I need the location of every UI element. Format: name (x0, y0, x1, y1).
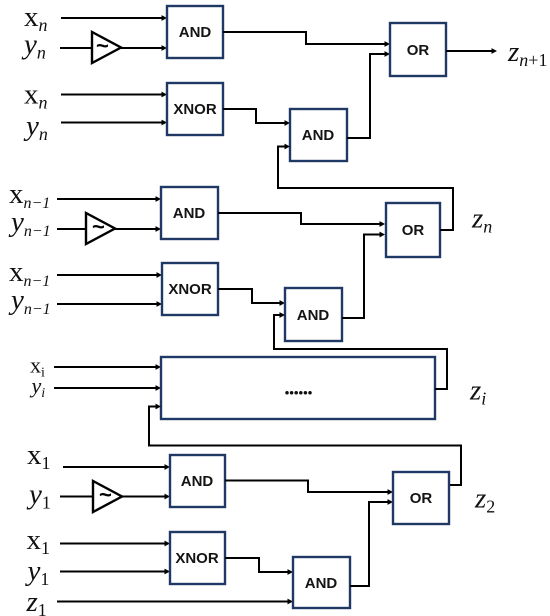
wire x_n to AND U1 (61, 15, 167, 21)
svg-text:AND: AND (179, 24, 212, 41)
wire U5 output to OR U8 (218, 213, 385, 227)
wire z_i feedback block to AND U7 (274, 312, 447, 389)
svg-text:y1: y1 (25, 555, 50, 589)
inverter B2 (~) (86, 213, 115, 244)
wire x_1 to XNOR U10 (60, 541, 170, 547)
wire y_n-1 to XNOR U6 (57, 301, 162, 307)
gate AND U3 (290, 109, 347, 161)
wire z_1 to AND U11 (57, 599, 293, 605)
svg-text:AND: AND (297, 307, 330, 324)
wire U9 output to OR U12 (225, 481, 393, 495)
gate XNOR U2 (167, 83, 223, 135)
svg-text:zn+1: zn+1 (507, 36, 547, 70)
svg-text:z1: z1 (26, 586, 47, 616)
gate AND U5 (161, 187, 218, 239)
wire x_n to XNOR U2 (61, 92, 167, 98)
svg-text:OR: OR (410, 490, 433, 507)
wire y_1 to inverter B3 (60, 496, 93, 498)
wire x_1 to AND U9 (63, 464, 170, 470)
wire inverter B1 to AND U1 (121, 45, 167, 51)
gate AND U1 (167, 6, 223, 58)
svg-text:XNOR: XNOR (168, 281, 212, 298)
svg-text:yn: yn (23, 110, 48, 144)
svg-text:AND: AND (173, 205, 206, 222)
wire U3 output to OR U4 (347, 51, 390, 138)
wire x_i to dots box (54, 364, 161, 370)
svg-text:AND: AND (302, 127, 335, 144)
wire y_n-1 to inverter B2 (57, 228, 86, 230)
svg-text:xn: xn (24, 79, 48, 113)
gate XNOR U6 (162, 263, 218, 315)
wire U10 output to AND U11 (225, 558, 293, 575)
svg-text:XNOR: XNOR (173, 101, 217, 118)
wire inverter B3 to AND U9 (122, 494, 170, 500)
inverter B3 (~) (93, 481, 122, 512)
wire U6 output to AND U7 (218, 289, 285, 306)
svg-text:x1: x1 (27, 524, 51, 558)
svg-text:~: ~ (96, 33, 109, 58)
wire inverter B2 to AND U5 (115, 226, 161, 232)
gate AND U9 (170, 455, 225, 507)
svg-text:AND: AND (305, 575, 338, 592)
wire x_n-1 to AND U5 (57, 196, 161, 202)
svg-text:x1: x1 (27, 439, 51, 473)
svg-text:XNOR: XNOR (175, 550, 219, 567)
gate OR U12 (393, 472, 449, 524)
wire U11 output to OR U12 (350, 499, 393, 586)
svg-text:AND: AND (181, 473, 214, 490)
wire U2 output to AND U3 (223, 109, 290, 126)
wire U1 output to OR U4 (223, 32, 390, 47)
wire z_n feedback U8 to AND U3 (278, 144, 453, 230)
gate OR U8 (386, 203, 440, 257)
svg-text:OR: OR (402, 222, 425, 239)
wire U7 output to OR U8 (342, 232, 385, 318)
inverter B1 (~) (92, 32, 121, 63)
svg-text:zn: zn (471, 203, 492, 237)
svg-text:y1: y1 (26, 479, 51, 513)
wire y_n to XNOR U2 (61, 120, 167, 126)
svg-text:OR: OR (407, 42, 430, 59)
block intermediate stages (......) (161, 357, 435, 419)
wire z_2 feedback OR U12 to dots box (149, 404, 461, 485)
wire U4 output z_n+1 (446, 48, 497, 54)
wire y_n to inverter B1 (60, 47, 92, 49)
wire y_1 to XNOR U10 (60, 569, 170, 575)
svg-text:z2: z2 (474, 483, 495, 517)
wire y_i to dots box (54, 385, 161, 391)
svg-text:zi: zi (469, 375, 486, 409)
wire x_n-1 to XNOR U6 (57, 272, 162, 278)
gate AND U11 (293, 557, 350, 608)
gate AND U7 (285, 288, 342, 341)
svg-text:~: ~ (99, 482, 112, 507)
svg-text:~: ~ (92, 214, 105, 239)
gate XNOR U10 (170, 532, 225, 584)
gate OR U4 (390, 23, 446, 76)
